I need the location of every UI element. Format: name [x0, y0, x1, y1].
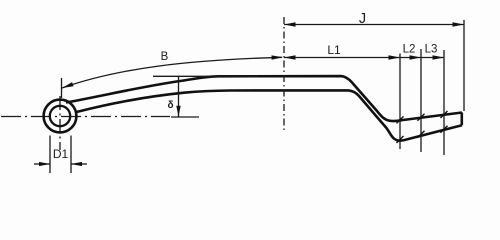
spring end cap: [460, 113, 463, 126]
height dim arrow down: [176, 106, 180, 117]
top reference line for height dim: [153, 75, 258, 77]
svg-text:J: J: [359, 11, 366, 27]
svg-text:δ: δ: [167, 100, 173, 111]
J left arrow: [284, 22, 296, 26]
dimension L1 line: [284, 57, 400, 59]
L2 end extension line: [420, 49, 422, 152]
slash marks at x=444 crossing: [441, 111, 448, 133]
slash marks at x=400 crossing: [397, 116, 404, 143]
dimension J line: [284, 24, 464, 26]
L1 end extension line: [399, 54, 401, 150]
dimension L3 line: [421, 57, 444, 59]
svg-text:D1: D1: [53, 147, 69, 161]
L1 right arrow: [389, 55, 401, 59]
horizontal centerline through eye: [1, 116, 170, 118]
J right extension line: [463, 20, 465, 111]
svg-text:L2: L2: [403, 44, 416, 56]
svg-text:B: B: [161, 51, 169, 63]
D1 left arrow: [39, 162, 50, 166]
L3 right arrow: [433, 55, 445, 59]
eye inner circle: [50, 106, 70, 126]
slash marks at x=421 crossing: [418, 114, 425, 138]
eye outer circle: [44, 100, 77, 133]
J right arrow: [453, 22, 465, 26]
D1 left extension line: [49, 136, 51, 174]
height dimension vertical line: [178, 76, 180, 116]
svg-text:L1: L1: [327, 43, 341, 57]
eye vertical centerline: [59, 96, 61, 150]
B left arrow: [62, 82, 74, 88]
B right arrow: [272, 55, 284, 59]
dimension L2 line: [400, 57, 421, 59]
leaf top outline: [66, 76, 462, 121]
D1 right extension line: [70, 136, 72, 174]
B extension line above eye: [61, 78, 63, 98]
D1 right arrow: [71, 162, 82, 166]
leaf bottom outline: [77, 90, 463, 140]
centerline solid reference segment: [171, 116, 199, 118]
L2 right arrow: [410, 55, 422, 59]
L1 left arrow: [284, 55, 296, 59]
D1 dimension line left part: [34, 163, 50, 165]
axle centerline (left extension of J and L1): [283, 17, 285, 130]
L3 end extension line: [443, 50, 445, 155]
D1 dimension line right part: [71, 163, 87, 165]
svg-text:L3: L3: [425, 44, 438, 56]
dimension B curved line: [62, 57, 282, 88]
